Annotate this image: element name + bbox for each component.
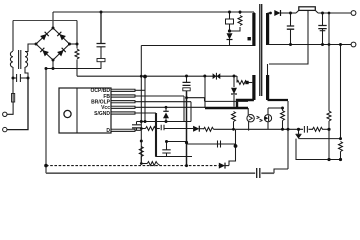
svg-text:S/GND: S/GND bbox=[94, 111, 110, 117]
svg-text:D: D bbox=[106, 128, 110, 134]
